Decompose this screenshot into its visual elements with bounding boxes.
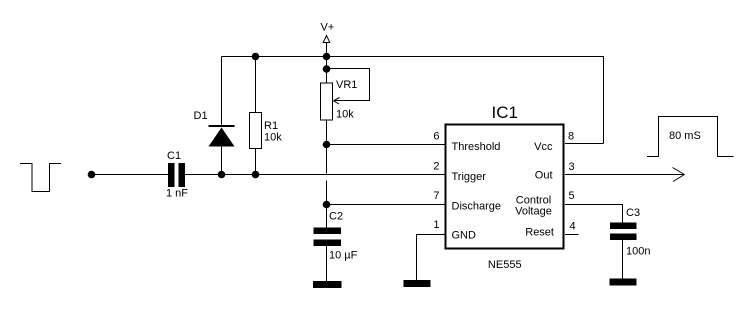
pin label Reset <box>525 227 554 239</box>
svg-text:1: 1 <box>433 219 439 231</box>
svg-text:2: 2 <box>433 161 439 173</box>
label NE555 <box>488 259 522 271</box>
pin number 5 <box>569 190 575 202</box>
junction dot rail/V+ <box>323 53 331 61</box>
V+ rail wire <box>222 57 604 144</box>
pin label Voltage <box>515 206 552 218</box>
output pulse waveform <box>647 117 734 157</box>
pin label Out <box>535 170 553 182</box>
pin number 7 <box>433 190 439 202</box>
pin number 1 <box>433 219 439 231</box>
svg-text:Vcc: Vcc <box>534 141 553 153</box>
svg-text:100n: 100n <box>626 246 650 258</box>
svg-text:Voltage: Voltage <box>515 206 552 218</box>
svg-text:Trigger: Trigger <box>452 171 487 183</box>
value C2 10 uF <box>329 250 358 262</box>
svg-text:80 mS: 80 mS <box>669 130 701 142</box>
svg-text:4: 4 <box>570 221 576 233</box>
pin label Threshold <box>452 141 501 153</box>
svg-text:C2: C2 <box>329 211 343 223</box>
input pulse waveform <box>20 164 61 192</box>
pin number 6 <box>433 131 439 143</box>
svg-text:C1: C1 <box>167 150 181 162</box>
ground C3 <box>610 279 637 286</box>
svg-text:10k: 10k <box>264 132 282 144</box>
wire discharge to pin 7 <box>327 204 445 206</box>
value VR1 10k <box>336 109 354 121</box>
svg-text:Threshold: Threshold <box>452 141 501 153</box>
potentiometer VR1 <box>321 69 370 121</box>
svg-text:VR1: VR1 <box>336 79 357 91</box>
svg-text:C3: C3 <box>626 207 640 219</box>
wire VR1 bottom to trigger crossover <box>326 120 328 174</box>
svg-text:GND: GND <box>452 230 477 242</box>
junction dot D1/trigger <box>218 171 226 179</box>
pin label Control <box>516 195 551 207</box>
wire V+ to VR1 top <box>326 57 328 84</box>
svg-text:8: 8 <box>568 131 574 143</box>
pin 4 stub <box>565 234 579 236</box>
pin label Discharge <box>452 201 502 213</box>
ground pin 1 <box>404 280 431 287</box>
wire crossover to C2 <box>326 181 328 228</box>
wire pin 5 to C3 <box>565 205 623 223</box>
wire threshold to pin 6 <box>327 144 445 146</box>
svg-text:V+: V+ <box>321 22 335 34</box>
svg-text:Reset: Reset <box>525 227 554 239</box>
svg-text:D1: D1 <box>194 110 208 122</box>
label C1 <box>167 150 181 162</box>
wire input node to C1 <box>92 174 169 176</box>
label 80 mS <box>669 130 701 142</box>
pin number 3 <box>569 161 575 173</box>
op-amp-style IC box U1 <box>446 125 564 249</box>
ground C2 <box>313 281 342 288</box>
svg-text:3: 3 <box>569 161 575 173</box>
svg-text:10 µF: 10 µF <box>329 250 358 262</box>
svg-text:1 nF: 1 nF <box>166 188 188 200</box>
pin label Trigger <box>452 171 487 183</box>
capacitor C1 <box>168 163 185 187</box>
svg-text:7: 7 <box>433 190 439 202</box>
junction dot rail/R1 <box>252 53 260 61</box>
resistor R1 <box>250 57 262 175</box>
pin label Vcc <box>534 141 553 153</box>
label C2 <box>329 211 343 223</box>
svg-text:6: 6 <box>433 131 439 143</box>
pin number 2 <box>433 161 439 173</box>
capacitor C2 <box>314 228 342 282</box>
label C3 <box>626 207 640 219</box>
pin number 8 <box>568 131 574 143</box>
junction dot R1/trigger <box>252 171 260 179</box>
label IC1 <box>492 103 518 122</box>
wire out pin 3 with arrow <box>565 168 685 182</box>
junction dot threshold <box>323 141 331 149</box>
wire pin 1 to ground <box>417 235 445 281</box>
input node dot <box>88 171 96 179</box>
label R1 <box>264 120 278 132</box>
svg-text:NE555: NE555 <box>488 259 522 271</box>
label D1 <box>194 110 208 122</box>
wire C1 to IC pin 2 (trigger line) <box>185 174 445 176</box>
pin label GND <box>452 230 477 242</box>
junction dot discharge <box>323 201 331 209</box>
pin number 4 <box>570 221 576 233</box>
label VR1 <box>336 79 357 91</box>
value C3 100n <box>626 246 650 258</box>
value 1 nF <box>166 188 188 200</box>
svg-text:10k: 10k <box>336 109 354 121</box>
power symbol V+ <box>321 22 335 57</box>
value R1 10k <box>264 132 282 144</box>
svg-text:Out: Out <box>535 170 553 182</box>
wire pin 8 stub <box>565 143 604 145</box>
svg-text:R1: R1 <box>264 120 278 132</box>
capacitor C3 <box>610 223 637 279</box>
svg-text:IC1: IC1 <box>492 103 518 122</box>
svg-text:Discharge: Discharge <box>452 201 502 213</box>
svg-text:5: 5 <box>569 190 575 202</box>
diode D1 <box>209 57 235 175</box>
junction dot wiper node <box>323 65 331 73</box>
